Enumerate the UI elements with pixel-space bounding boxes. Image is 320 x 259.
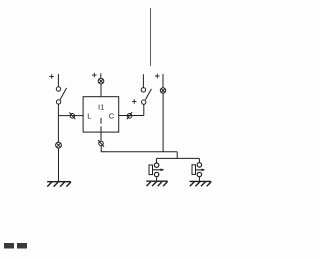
wire lamp E1 to ground xyxy=(58,148,60,182)
switch S2 xyxy=(141,88,151,105)
svg-text:C: C xyxy=(109,112,115,121)
lamp E2 xyxy=(98,78,104,84)
wire supply stub left xyxy=(57,74,59,87)
svg-text:I1: I1 xyxy=(98,102,104,111)
wire supply stub middle xyxy=(100,73,102,78)
wire junction A to lamp E1 xyxy=(57,116,59,143)
scan artifact bars bottom left xyxy=(4,243,27,249)
ground left xyxy=(47,182,71,187)
wire supply stub right xyxy=(162,74,164,88)
ground horn H1 xyxy=(146,181,167,186)
wire relay pin C to connector X2 to switch S2 xyxy=(119,115,144,117)
wire S1 to junction A xyxy=(57,104,59,116)
horn H1 xyxy=(149,163,164,177)
lamp E1 xyxy=(56,142,62,148)
node plus supply left xyxy=(49,74,54,79)
node plus at switch S2 xyxy=(132,99,137,104)
wire lamp E2 to relay top pin xyxy=(100,84,102,97)
wire lamp E3 down to horn bus xyxy=(162,93,164,152)
relay internal dashed line xyxy=(100,118,102,132)
wire up to switch S2 xyxy=(143,104,145,115)
wire horn bus step xyxy=(157,152,178,159)
scan artifact vertical line xyxy=(150,8,152,66)
wire supply stub at S2 xyxy=(142,74,144,87)
wire horn H1 to ground xyxy=(156,177,158,182)
wire horn bus to horn H2 xyxy=(177,157,199,159)
wire junction A to connector X1 to relay pin L xyxy=(58,115,83,117)
wire horn H2 to ground xyxy=(198,177,200,182)
wire drop to horn H1 xyxy=(156,158,158,163)
wire relay bottom pin to connector X3 xyxy=(100,132,102,141)
connector X3 xyxy=(98,140,104,147)
node plus supply middle xyxy=(92,73,97,78)
connector X1 xyxy=(69,112,75,119)
svg-text:L: L xyxy=(87,112,91,121)
switch S1 xyxy=(56,87,66,104)
wire connector X3 down to horn bus xyxy=(101,146,177,152)
node plus supply right xyxy=(155,74,160,79)
horn H2 xyxy=(192,163,205,177)
wire drop to horn H2 xyxy=(198,158,200,162)
connector X2 xyxy=(127,112,132,119)
ground horn H2 xyxy=(190,181,212,186)
lamp E3 xyxy=(160,88,165,93)
relay I1 xyxy=(83,97,119,132)
